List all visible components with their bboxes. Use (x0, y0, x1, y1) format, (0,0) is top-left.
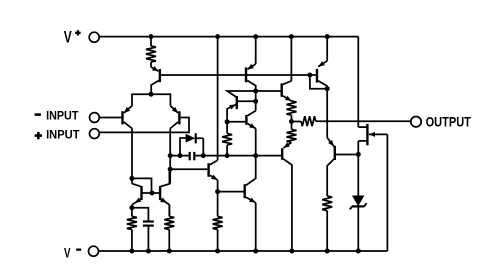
node: dot1 (Q2 collector / Q6 collector / Q8 base) (253, 89, 258, 94)
wire: output line to OUTPUT terminal (316, 120, 411, 122)
wire: compensation line (170, 155, 282, 157)
node: B (Q9 emitter / Q10 base / R9) (215, 189, 220, 194)
transistor Q5 (PNP, non-inverting input) (170, 106, 179, 129)
node: tee center (149, 92, 154, 97)
wire: Q9 emitter to node B (217, 180, 219, 192)
V- rail (99, 250, 388, 252)
wire: +INPUT to Q5 base (wrap-around) (99, 118, 189, 133)
node: A (Q5 collector / Q9 base / Q12 collector) (168, 167, 173, 172)
node: D (R3 / R4 / R5 output node) (289, 119, 294, 124)
wire: mirror base line (142, 192, 161, 194)
wire: Q3 collector down to Q14 emitter (326, 89, 328, 138)
V- terminal (64, 245, 99, 261)
diode D1 (180, 133, 203, 155)
V+ rail (99, 36, 358, 38)
svg-text:INPUT: INPUT (46, 109, 79, 123)
node: V+ rail junctions (149, 34, 330, 39)
node: V- rail junctions (129, 249, 360, 254)
node: dot2 (Q6 base / Q7 collector) (253, 99, 258, 104)
resistor R6 (322, 196, 332, 251)
node: Q3 base tie (307, 73, 312, 78)
resistor R1 (146, 37, 156, 67)
node: J1 source / Q14 base / Z1 cathode (356, 152, 361, 157)
node: mirror bases (150, 191, 155, 196)
node: D1 cathode (201, 153, 206, 158)
node: R2 bottom on comp line (225, 153, 230, 158)
resistor R8 (164, 205, 174, 251)
node: D1 anode (178, 153, 183, 158)
wire: diff pair emitter tee (132, 94, 170, 106)
wire: Q4 collector down to Q11 (131, 128, 133, 183)
wire: Q3 base-collector tie (310, 75, 327, 89)
wire: V+ to Q3 emitter (326, 37, 328, 61)
transistor Q6 (PNP) (227, 91, 256, 122)
transistor Q13 (PNP) (282, 142, 292, 251)
wire: Q7 emitter to node C (255, 129, 257, 156)
-INPUT terminal (35, 109, 100, 123)
transistor Q9 (NPN) (170, 160, 217, 180)
wire: V+ rail corner down to J1 drain (357, 37, 359, 128)
capacitor C2 (132, 208, 154, 251)
JFET J1 (358, 124, 387, 154)
wire: V+ to Q2 emitter (255, 37, 257, 64)
resistor R7 (127, 208, 137, 251)
node: Q11 emitter junction (129, 205, 134, 210)
transistor Q11 (NPN, diode connected) (132, 184, 142, 208)
transistor Q4 (PNP, inverting input) (123, 106, 133, 129)
OUTPUT terminal (411, 114, 471, 130)
transistor Q8 (NPN) (256, 81, 292, 101)
transistor Q3 (PNP, diode connected) (317, 61, 327, 89)
resistor R3 (287, 101, 297, 122)
+INPUT terminal (35, 127, 100, 141)
resistor R5 (292, 116, 316, 126)
wire: common base line Q1-Q2-Q3 (160, 74, 317, 76)
svg-text:V: V (64, 245, 71, 261)
node: Q4 collector junction (129, 176, 134, 181)
transistor Q1 (PNP current source) (151, 66, 160, 94)
wire: Q10 emitter to V- rail (255, 203, 257, 251)
wire: V+ to Q8 collector (290, 37, 292, 81)
resistor R4 (287, 122, 297, 143)
node: C (comp line / Q7 emitter / Q10 collector) (253, 153, 258, 158)
svg-text:OUTPUT: OUTPUT (426, 114, 472, 130)
wire: V+ bus down to Q9 collector (217, 37, 219, 161)
transistor Q2 (PNP current source) (246, 64, 256, 91)
transistor Q7 (NPN) (227, 111, 256, 129)
svg-text:V: V (64, 28, 72, 47)
resistor R9 (213, 192, 223, 251)
transistor Q12 (NPN) (160, 169, 169, 216)
zener diode Z1 (350, 154, 367, 251)
transistor Q10 (NPN) (218, 156, 256, 203)
wire: dot1 to dot2 (255, 91, 257, 111)
node: Q3 collector tie (325, 86, 330, 91)
transistor Q14 (PNP) (327, 138, 358, 196)
wire: mirror tie (132, 178, 152, 193)
wire: -INPUT to Q4 base (99, 117, 121, 119)
svg-text:INPUT: INPUT (46, 127, 80, 141)
capacitor C1 (190, 152, 195, 160)
node: comp line left (168, 153, 173, 158)
wire: V- rail corner up to J1 gate (386, 134, 388, 251)
V+ terminal (64, 28, 99, 47)
node: dot3 (Q6 emitter / Q7 base / R2) (225, 119, 230, 124)
resistor R2 (222, 122, 232, 156)
wire: Q5 collector down to node A (169, 128, 171, 183)
